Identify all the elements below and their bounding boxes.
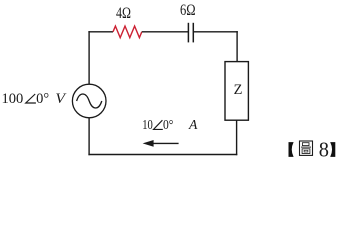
svg-text:Z: Z (234, 82, 243, 98)
svg-text:8: 8 (319, 137, 329, 161)
capacitor 6Ω : left plate (187, 23, 189, 43)
angle symbol of current label (154, 120, 163, 129)
wire: left vertical upper (corner to source top) (88, 31, 90, 84)
impedance box Z (225, 62, 248, 121)
capacitor 6Ω : right plate (192, 23, 194, 43)
figure caption: right lenticular bracket 】 (330, 142, 335, 157)
wire: right vertical upper (to Z box) (236, 31, 238, 61)
wire: top-left horizontal segment (88, 31, 113, 33)
svg-text:6Ω: 6Ω (180, 2, 196, 19)
figure caption: character 圖 (drawn) (300, 141, 313, 155)
wire: top middle segment between resistor and capacitor (142, 31, 189, 33)
AC voltage source circle (72, 84, 106, 118)
svg-text:A: A (188, 118, 198, 133)
figure caption: left lenticular bracket 【 (289, 142, 294, 157)
svg-text:0°: 0° (36, 91, 49, 107)
wire: bottom horizontal (88, 154, 237, 156)
svg-text:100: 100 (2, 91, 24, 107)
resistor 4Ω (red zigzag) (113, 26, 142, 38)
svg-text:10: 10 (142, 118, 153, 133)
svg-text:0°: 0° (163, 118, 173, 133)
wire: top right horizontal segment (193, 31, 238, 33)
current direction arrow (pointing left) (153, 142, 179, 144)
angle symbol of source label (26, 94, 36, 103)
AC source sine wave symbol (77, 94, 102, 108)
svg-text:4Ω: 4Ω (116, 5, 131, 22)
wire: left vertical lower (source bottom to bottom wire) (88, 118, 90, 155)
wire: right vertical lower (Z box to bottom wire) (236, 120, 238, 155)
